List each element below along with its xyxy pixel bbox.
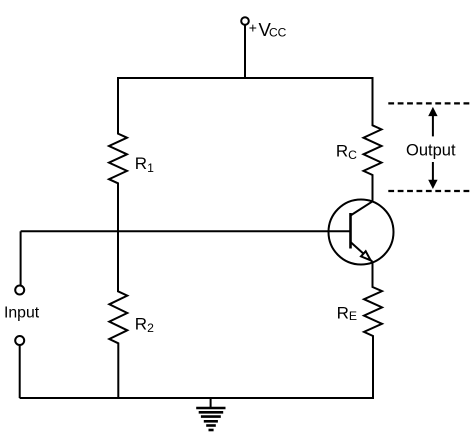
svg-text:CC: CC	[269, 26, 287, 40]
svg-text:+: +	[249, 19, 257, 35]
svg-text:Input: Input	[4, 305, 40, 322]
svg-text:Output: Output	[406, 142, 456, 160]
